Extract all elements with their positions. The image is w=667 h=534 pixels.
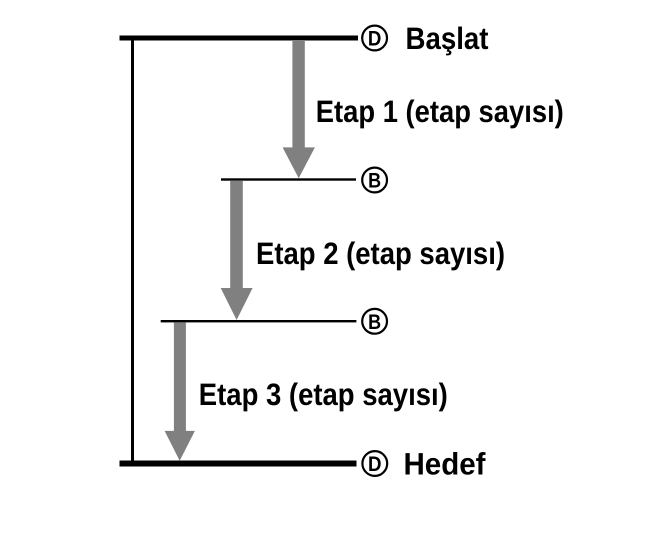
svg-text:Etap 3 (etap sayısı): Etap 3 (etap sayısı) [199, 377, 448, 412]
svg-text:B: B [368, 170, 381, 193]
svg-text:Etap 1 (etap sayısı): Etap 1 (etap sayısı) [316, 94, 564, 129]
svg-text:D: D [368, 453, 382, 476]
svg-text:Hedef: Hedef [404, 447, 487, 482]
svg-text:Etap 2 (etap sayısı): Etap 2 (etap sayısı) [256, 236, 505, 271]
svg-text:Başlat: Başlat [406, 21, 489, 56]
svg-text:D: D [368, 28, 382, 51]
svg-text:B: B [368, 311, 381, 334]
